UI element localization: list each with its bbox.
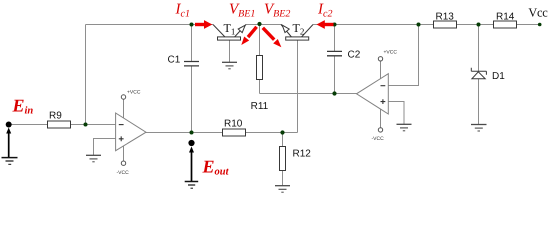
- terminal E_in: [6, 122, 12, 128]
- wire opamp1 plus to ground: [94, 139, 116, 156]
- node junction output/E_out: [190, 131, 194, 135]
- wire R11 bottom row to opamp2 output: [260, 93, 357, 95]
- wire top rail right segment: [313, 24, 540, 26]
- arrow Ic1: [195, 20, 212, 29]
- svg-text:R13: R13: [436, 11, 455, 22]
- svg-text:C2: C2: [348, 50, 361, 61]
- wire opamp2 inverting feedback: [388, 25, 418, 86]
- wire opamp2 plus to ground: [388, 102, 404, 125]
- node junction emitters: [257, 22, 261, 26]
- wire output row: [146, 132, 298, 134]
- resistor R9: [48, 121, 71, 128]
- transistor T2: [281, 25, 313, 41]
- resistor R10: [223, 129, 246, 136]
- wire input row: [9, 124, 116, 126]
- node junction R13 left: [417, 23, 421, 27]
- ground at opamp2 plus input: [397, 124, 412, 131]
- transistor T1: [213, 25, 246, 41]
- wire C1 branch: [191, 25, 193, 133]
- wire R12 branch: [282, 133, 284, 186]
- wire top rail left segment: [86, 24, 214, 26]
- op-amp U2: [357, 74, 389, 114]
- opamp2 -VCC terminal: [378, 128, 382, 132]
- ground under T1: [222, 62, 237, 69]
- svg-text:R10: R10: [224, 119, 243, 130]
- terminal E_out: [188, 140, 194, 146]
- svg-text:R12: R12: [293, 149, 312, 160]
- opamp1 +VCC terminal: [121, 95, 125, 99]
- resistor R14: [494, 21, 517, 28]
- node terminal Vcc: [538, 23, 542, 27]
- zener diode D1: [471, 68, 486, 79]
- node junction C2 top: [333, 23, 337, 27]
- wire T1 base to ground: [229, 40, 231, 62]
- svg-text:R11: R11: [251, 101, 269, 112]
- svg-text:+VCC: +VCC: [127, 90, 141, 96]
- ground at opamp1 plus input: [86, 155, 101, 162]
- wire opamp2 vcc pins: [380, 61, 382, 128]
- node junction R9/feedback: [84, 123, 88, 127]
- node junction R13/R14/D1: [477, 23, 481, 27]
- resistor R13: [434, 21, 457, 28]
- svg-text:-VCC: -VCC: [117, 170, 130, 176]
- svg-text:D1: D1: [492, 71, 505, 82]
- opamp2 +VCC terminal: [378, 57, 382, 61]
- node junction R10/R12: [280, 130, 284, 134]
- ground under D1: [471, 125, 487, 132]
- ground under E_in: [2, 158, 18, 165]
- arrow Ic2: [317, 20, 334, 29]
- arrow VBE1: [241, 27, 256, 45]
- arrow VBE2: [263, 28, 282, 48]
- svg-text:Vcc: Vcc: [528, 6, 548, 20]
- wire C2 branch: [334, 25, 336, 94]
- wire left feedback vertical: [85, 25, 87, 125]
- wire D1 branch: [478, 25, 480, 125]
- ground under E_out: [185, 182, 199, 189]
- op-amp U1: [116, 113, 146, 151]
- capacitor C1: [184, 62, 199, 66]
- svg-text:-VCC: -VCC: [372, 136, 385, 142]
- wire opamp1 vcc pins: [123, 99, 125, 161]
- svg-text:+VCC: +VCC: [384, 50, 398, 56]
- svg-text:C1: C1: [168, 55, 181, 66]
- node junction C1 top: [190, 23, 194, 27]
- wire top rail emitter segment: [246, 24, 282, 26]
- svg-text:R14: R14: [496, 11, 515, 22]
- resistor R11: [257, 56, 263, 80]
- capacitor C2: [327, 51, 342, 55]
- wire T2 base down: [297, 40, 299, 133]
- resistor R12: [280, 147, 286, 171]
- node junction C2 bottom: [332, 91, 336, 95]
- opamp1 -VCC terminal: [121, 161, 125, 165]
- wire node to R11: [259, 25, 261, 94]
- svg-text:R9: R9: [49, 111, 62, 122]
- ground under R12: [275, 186, 290, 193]
